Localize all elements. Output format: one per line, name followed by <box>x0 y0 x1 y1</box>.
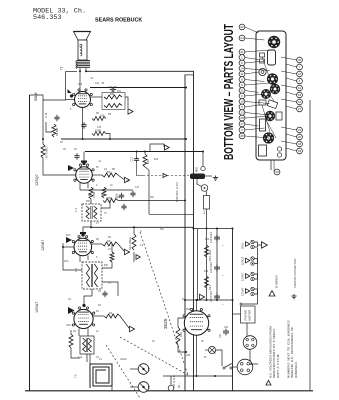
arrow on dashed line <box>163 173 167 177</box>
svg-text:10: 10 <box>298 100 302 104</box>
chassis electrolytic <box>268 50 276 65</box>
svg-text:C21: C21 <box>219 333 222 338</box>
note1 line3 <box>276 354 280 378</box>
junction at 206.5,300 <box>206 299 208 301</box>
wire diode row <box>80 189 133 191</box>
svg-text:22: 22 <box>240 25 244 29</box>
value label S <box>140 231 142 233</box>
wire c17 top <box>136 152 138 157</box>
wire T3 bottom out <box>91 289 93 296</box>
resistor R10b 510 <box>104 104 122 108</box>
legend label 50L6 <box>241 242 245 249</box>
pilot lamp PL <box>208 346 215 353</box>
value label S1 <box>152 341 156 343</box>
wire V3 plate <box>92 243 102 245</box>
wire T1 top to plate <box>79 68 81 71</box>
IF transformer T4 <box>82 204 101 221</box>
svg-text:12SQ7: 12SQ7 <box>35 174 39 186</box>
svg-text:FOR REC. & P.U.: FOR REC. & P.U. <box>175 181 179 202</box>
value label R11 <box>117 91 122 93</box>
callout 6 left <box>239 60 264 66</box>
resistor R2 <box>110 252 114 262</box>
capacitor C13 <box>110 87 117 92</box>
label T1 <box>60 67 64 71</box>
value label R3 <box>96 239 100 241</box>
callout 14 left <box>239 66 269 72</box>
B+ arrow at V4 <box>130 326 135 331</box>
legend bracket 12SA7 <box>254 289 257 294</box>
wire T1 left lead to grid row <box>65 72 67 101</box>
callout 28 left <box>239 115 269 121</box>
wire loop top <box>89 354 91 364</box>
resistor R5 <box>102 187 106 198</box>
left page border <box>29 95 31 391</box>
wire v5 top <box>196 300 198 311</box>
wedge V2 <box>68 165 74 171</box>
svg-text:C17: C17 <box>131 156 134 161</box>
capacitor C14 cathode <box>81 122 86 129</box>
wire avc v3 <box>63 246 74 248</box>
value label 2 <box>96 185 98 187</box>
label C21 <box>219 333 222 338</box>
note1 line1 <box>269 326 273 378</box>
chassis part m4 <box>276 112 282 120</box>
grid cap V1 <box>68 89 74 98</box>
svg-text:R7-1MEG: R7-1MEG <box>45 146 49 158</box>
junction at 215,376 <box>214 375 216 377</box>
legend terminal 12SQ7 b <box>251 262 254 265</box>
wire V4 grid up <box>84 296 92 304</box>
wire V4 below2 <box>87 329 89 337</box>
legend arrow 12SK7 <box>246 274 250 279</box>
svg-text:12: 12 <box>298 86 302 90</box>
title line 2: 546.353 <box>33 14 62 22</box>
junction at 232.5,228.5 <box>232 228 234 230</box>
label RED <box>197 167 199 172</box>
label ACDC <box>203 209 206 214</box>
wire sockets link <box>250 349 251 361</box>
junction at 217,300 <box>216 299 218 301</box>
legend terminal 12SK7 a <box>251 272 254 275</box>
svg-text:C15: C15 <box>97 127 102 129</box>
wire osc bottom <box>86 354 88 362</box>
svg-text:31: 31 <box>240 50 244 54</box>
svg-text:C18 40MF: C18 40MF <box>210 231 213 243</box>
label B WIRES <box>275 275 279 288</box>
junction at 186,352 <box>185 351 187 353</box>
wire T1 bottom to B+ rail <box>85 68 87 71</box>
junction at 197.5,300 <box>197 299 199 301</box>
wire rail x232 <box>232 229 234 391</box>
svg-text:14: 14 <box>240 67 244 71</box>
resistor R10c <box>143 154 150 167</box>
label C13 <box>108 86 117 89</box>
value label 35 <box>201 341 204 343</box>
value label 50 <box>96 167 99 169</box>
wire plug drop <box>170 376 172 385</box>
value label R1 <box>98 305 102 307</box>
junction at 186,139 <box>185 138 187 140</box>
value label C15 <box>97 127 102 129</box>
chassis socket A <box>268 36 280 48</box>
svg-text:50L6: 50L6 <box>34 93 38 101</box>
wire R7 top <box>42 100 44 144</box>
wire T3 right <box>102 262 112 268</box>
junction at 145,151.5 <box>144 151 146 153</box>
value label T4 <box>104 213 107 215</box>
junction at 203,151.5 <box>202 151 204 153</box>
value label GANG <box>120 358 127 361</box>
wire r16 bot <box>178 345 186 352</box>
tube V2 12SQ7 <box>74 164 94 183</box>
resistor R10 470K <box>92 129 106 136</box>
callout 25 left <box>239 133 269 139</box>
svg-text:T 4: T 4 <box>74 208 78 212</box>
label C18 <box>210 231 213 243</box>
wire avc from R7 col <box>63 243 82 270</box>
legend label 12SQ7 <box>241 256 245 265</box>
svg-text:30: 30 <box>275 170 279 174</box>
callout 30 bottom <box>274 160 280 175</box>
wire legend link <box>251 363 258 365</box>
wire R4 to rail <box>118 200 186 202</box>
value label AVC <box>64 260 69 263</box>
dashed tuning gang link 2 <box>120 337 188 375</box>
callout 20 right <box>286 134 302 140</box>
callout 31 left <box>239 49 269 55</box>
value label C12 <box>95 83 100 85</box>
chassis part m7 <box>277 153 281 157</box>
wire V4 plate <box>93 315 104 317</box>
svg-text:R10: R10 <box>154 159 159 161</box>
junction at 82.5,139 <box>82 138 84 140</box>
chassis part m2 <box>267 100 278 109</box>
chassis part m6 <box>277 147 281 151</box>
callout 4 right <box>286 78 302 84</box>
chassis outline <box>256 31 286 160</box>
jack PU <box>201 185 208 192</box>
wire r10c top <box>144 152 146 155</box>
value label 1/2 <box>104 169 108 171</box>
note2 line2 <box>290 326 294 378</box>
legend label 12SK7 <box>241 272 245 281</box>
value label 455 <box>86 201 91 203</box>
wire T4 right to screen <box>101 201 110 209</box>
phono motor box <box>241 306 256 323</box>
label 50L6 <box>34 93 38 101</box>
svg-text:28: 28 <box>240 116 244 120</box>
svg-text:R16: R16 <box>179 332 183 337</box>
callout 12 right <box>281 85 302 91</box>
callout 7 right <box>286 64 302 70</box>
label C19 <box>210 261 213 273</box>
svg-text:12SK7: 12SK7 <box>241 272 245 281</box>
junction at 91,227.3 <box>90 226 92 228</box>
chassis part r2 <box>260 59 265 63</box>
wire r10 to rail <box>106 134 110 140</box>
junction at 217,228.5 <box>216 228 218 230</box>
chassis part m1 <box>259 100 266 105</box>
value label L2 <box>96 331 99 333</box>
loop antenna T2 <box>90 364 112 388</box>
callout 21 left <box>239 88 258 94</box>
junction at 196.5,300 <box>196 299 198 301</box>
svg-text:12SQ7: 12SQ7 <box>241 256 245 265</box>
tube V4 12SA7 <box>72 307 95 329</box>
svg-text:C21: C21 <box>224 327 229 329</box>
chassis part m5 <box>259 145 267 156</box>
resistor R3 <box>102 239 118 246</box>
svg-text:R14: R14 <box>204 271 209 273</box>
feedback loop rect <box>150 144 164 152</box>
value label 10 <box>110 185 113 187</box>
value label C2 <box>68 299 72 301</box>
value label R5 <box>112 169 116 171</box>
svg-text:C19 40MF: C19 40MF <box>210 261 213 273</box>
right page border <box>309 100 311 391</box>
value label R3 <box>108 237 112 239</box>
resistor R16 <box>176 327 183 345</box>
wire screen rail <box>90 87 185 89</box>
label phono motor b <box>248 310 252 321</box>
value label .02 <box>90 78 94 80</box>
value label C1a <box>78 357 83 359</box>
wire V4 below1 <box>78 329 80 337</box>
transformer T1 <box>76 61 90 69</box>
note triangle B minus <box>266 380 271 385</box>
svg-text:C12: C12 <box>78 84 83 86</box>
value label + <box>222 245 224 247</box>
wire y227 long <box>91 226 194 228</box>
value label C17 <box>135 187 140 189</box>
legend terminal 12SK7 b <box>251 277 254 280</box>
callout 15 right <box>281 127 302 133</box>
junction at 86,71.3 <box>85 70 87 72</box>
svg-text:C16: C16 <box>116 197 121 199</box>
svg-text:16: 16 <box>298 72 302 76</box>
svg-text:20: 20 <box>298 135 302 139</box>
wire V1 bottom to y139 <box>82 108 84 139</box>
resistor R osc <box>69 334 73 348</box>
svg-text:15: 15 <box>298 128 302 132</box>
svg-text:60 ~: 60 ~ <box>177 382 181 388</box>
wire lamp leads <box>205 349 208 351</box>
svg-text:23: 23 <box>298 93 302 97</box>
value label C8 <box>126 181 130 183</box>
label T2 <box>74 374 78 378</box>
jack P1 <box>138 364 149 375</box>
wire R3 out <box>118 244 124 251</box>
svg-text:T1: T1 <box>60 67 64 71</box>
svg-text:T 3: T 3 <box>74 268 78 272</box>
switch S1 <box>223 364 232 370</box>
value label C1 <box>96 357 100 359</box>
note2 line3 <box>294 362 298 378</box>
value label R9 <box>108 114 112 116</box>
pickup blob <box>190 174 205 180</box>
value label C12 <box>78 84 83 86</box>
wire caps column <box>216 229 218 301</box>
feedback loop triangle <box>165 145 170 150</box>
value label C21 <box>224 327 229 329</box>
wire R1 out <box>120 316 129 328</box>
callout 16 right <box>281 71 302 77</box>
wire y214 link <box>149 213 194 215</box>
wire V2 bottom1 <box>79 183 81 190</box>
wire V2 plate right <box>92 174 102 176</box>
svg-text:546.353: 546.353 <box>33 14 62 22</box>
svg-text:WINDINGS: WINDINGS <box>294 362 298 378</box>
svg-text:R16: R16 <box>186 309 191 311</box>
wedge V4 <box>68 307 75 314</box>
value label SW <box>150 197 155 199</box>
svg-text:A.C.: A.C. <box>203 209 206 214</box>
wire V3 screen <box>87 256 89 261</box>
wire V3 grid <box>83 227 91 232</box>
value label R14 <box>204 271 209 273</box>
svg-text:R13: R13 <box>205 239 210 241</box>
value label C6 <box>74 149 78 151</box>
capacitor C16 <box>116 193 125 200</box>
feedback box R11 C13 <box>102 93 125 110</box>
junction at 232.5,300 <box>232 299 234 301</box>
wire right rail x186 <box>184 75 186 391</box>
svg-text:R14: R14 <box>208 285 212 290</box>
value label T3 <box>108 283 111 285</box>
grid cap V2 <box>81 161 87 166</box>
label C20 <box>210 290 213 302</box>
svg-text:AVC: AVC <box>66 234 71 237</box>
svg-text:P2: P2 <box>147 385 151 389</box>
junction at 43,139 <box>42 138 44 140</box>
dashed tuning gang link 3 <box>140 232 188 375</box>
value label AVC <box>66 234 71 237</box>
value label + <box>222 304 224 306</box>
value label R16 <box>186 309 191 311</box>
big B+ triangle legend <box>262 242 268 248</box>
wire B minus vertical <box>197 229 199 301</box>
capacitor C15 <box>54 115 59 122</box>
value label K <box>96 257 98 259</box>
grid cap V4 <box>82 304 85 307</box>
value label C3 <box>108 249 112 251</box>
wire plug down to chain <box>206 209 208 229</box>
junction dot legend <box>250 363 252 365</box>
callout 5 left <box>239 82 269 88</box>
wire T1 left lead horizontal <box>66 71 78 73</box>
chassis socket E <box>265 111 275 121</box>
svg-text:RED: RED <box>197 167 199 172</box>
wire B chain top <box>194 228 233 230</box>
wire grid V1 left <box>66 99 75 101</box>
svg-text:35Z5: 35Z5 <box>163 318 168 329</box>
resistor R14 <box>205 276 213 290</box>
legend label 12SA7 <box>241 287 245 296</box>
wire R2 top <box>111 244 113 252</box>
svg-text:R13 1000: R13 1000 <box>208 249 212 261</box>
label 60 cyc <box>177 382 181 388</box>
svg-text:21: 21 <box>240 89 244 93</box>
wire avc rail y151 <box>85 151 203 153</box>
tube V3 12SK7 <box>72 236 93 256</box>
capacitor C17b <box>131 156 140 163</box>
value label R2 <box>73 331 77 333</box>
resistor R9 160 <box>92 114 106 121</box>
value label R7 <box>60 142 64 144</box>
wire lamp right <box>216 350 222 366</box>
svg-text:17: 17 <box>240 122 244 126</box>
callout 13 left <box>239 110 264 116</box>
callout 22 left <box>239 24 258 33</box>
wire after R9b <box>118 175 124 180</box>
oscillator coil L1 <box>80 336 94 354</box>
legend terminal 12SA7 a <box>251 287 254 290</box>
svg-text:C13 .05: C13 .05 <box>108 86 117 89</box>
note1 line2 <box>272 329 276 378</box>
wire jacks link2 <box>130 386 138 388</box>
junction at 206.5,228.5 <box>206 228 208 230</box>
svg-text:24: 24 <box>240 36 244 40</box>
svg-text:P1: P1 <box>147 367 151 371</box>
junction at 185,300 <box>184 299 186 301</box>
svg-text:R12 2MEG: R12 2MEG <box>128 237 132 250</box>
red terminal <box>201 166 205 170</box>
B minus arrow chain <box>200 294 205 299</box>
wire J2 to rail <box>233 366 238 368</box>
resistor R13 <box>205 245 213 261</box>
value label C16 <box>116 197 121 199</box>
resistor R6 diode <box>89 187 96 199</box>
wire c17 bot <box>137 163 144 176</box>
resistor R8 cathode <box>52 124 59 137</box>
wire corner y75 <box>185 74 194 76</box>
legend terminal 12SQ7 a <box>251 257 254 260</box>
capacitor C21 <box>223 329 229 336</box>
value label C7 <box>96 223 100 225</box>
svg-text:BOTTOM VIEW – PARTS LAYOUT: BOTTOM VIEW – PARTS LAYOUT <box>221 24 236 160</box>
callout 18 right <box>281 141 302 147</box>
wire plate V1 up <box>79 71 81 91</box>
wire top B+ rail <box>86 71 194 391</box>
resistor R1 <box>104 311 120 318</box>
svg-text:C 14: C 14 <box>45 112 48 118</box>
svg-text:12SA7: 12SA7 <box>241 287 245 296</box>
callout 29 right <box>286 148 302 154</box>
note1 line4 <box>0 0 1 1</box>
legend terminal 12SA7 b <box>251 292 254 295</box>
legend arrow 50L6 <box>246 242 250 247</box>
wire V2 grid cap up <box>83 152 85 161</box>
junction at 136.5,151.5 <box>136 151 138 153</box>
label 12SQ7 <box>35 174 39 186</box>
wire T3 right low <box>102 282 118 296</box>
svg-text:MOTOR: MOTOR <box>248 310 252 321</box>
wire blob to gnd <box>205 175 212 177</box>
callout 11 left <box>239 71 258 77</box>
svg-text:CHASSIS CONNECTION: CHASSIS CONNECTION <box>293 258 297 288</box>
callout 10 right <box>281 99 302 105</box>
capacitor C5 <box>121 204 126 211</box>
svg-text:GANG: GANG <box>120 358 127 361</box>
svg-text:160: 160 <box>100 114 105 118</box>
svg-text:13: 13 <box>240 111 244 115</box>
value label 455 <box>104 265 109 267</box>
junction at 193.5,228.5 <box>193 228 195 230</box>
callout 1 left <box>239 55 258 61</box>
chassis socket F <box>263 132 274 143</box>
wire blob to jack <box>197 179 202 187</box>
wire loop bot <box>111 386 113 391</box>
